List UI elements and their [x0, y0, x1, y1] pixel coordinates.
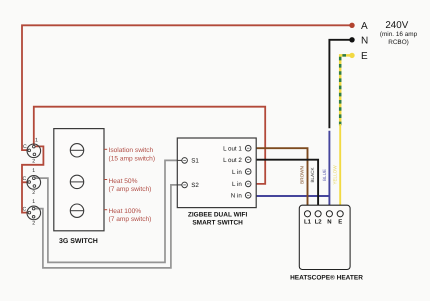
- svg-text:BROWN: BROWN: [299, 166, 304, 184]
- terminal S2: [177, 184, 182, 186]
- node N supply dot: [349, 37, 354, 42]
- svg-text:Heat 50%: Heat 50%: [109, 178, 138, 185]
- svg-text:N: N: [327, 218, 331, 225]
- svg-text:1: 1: [32, 168, 35, 174]
- svg-text:BLUE: BLUE: [322, 169, 327, 181]
- heater box: [299, 205, 350, 269]
- wire: red stub to SW2 C: [22, 181, 29, 183]
- svg-text:(15 amp switch): (15 amp switch): [109, 155, 156, 162]
- svg-text:1: 1: [32, 199, 35, 205]
- wire: switched live red from SW1 terminal 1 to zigbee L in: [34, 107, 265, 184]
- svg-text:N: N: [361, 35, 368, 46]
- svg-text:L in: L in: [232, 181, 242, 188]
- svg-text:N in: N in: [231, 193, 243, 200]
- svg-text:SMART SWITCH: SMART SWITCH: [192, 220, 243, 227]
- 3G switch box: [54, 129, 104, 231]
- wire: black L out 2 to heater L2: [251, 160, 318, 211]
- svg-text:S1: S1: [191, 158, 199, 165]
- rocker 1: [70, 144, 83, 157]
- svg-text:(7 amp switch): (7 amp switch): [109, 186, 152, 193]
- svg-text:L in: L in: [232, 169, 242, 176]
- wire: grey SW3 terminal 1 to zigbee S2: [34, 185, 182, 268]
- svg-text:(min. 16 amp: (min. 16 amp: [380, 31, 418, 38]
- svg-text:3G SWITCH: 3G SWITCH: [59, 238, 98, 245]
- wire: earth yellow-green striped from E: [340, 55, 352, 125]
- wire: live supply red from A to SW1 C: [22, 25, 352, 150]
- svg-text:2: 2: [32, 159, 35, 165]
- heater terminal L1: [304, 211, 310, 217]
- svg-text:BLACK: BLACK: [310, 167, 315, 183]
- svg-text:Isolation switch: Isolation switch: [109, 147, 154, 154]
- svg-text:C: C: [23, 176, 27, 182]
- svg-text:E: E: [361, 51, 368, 62]
- svg-text:C: C: [23, 144, 27, 150]
- heater terminal N: [326, 211, 332, 217]
- svg-text:E: E: [338, 218, 342, 225]
- svg-text:2: 2: [32, 221, 35, 227]
- svg-text:Heat 100%: Heat 100%: [109, 208, 142, 215]
- svg-text:ZIGBEE DUAL WIFI: ZIGBEE DUAL WIFI: [188, 212, 248, 219]
- wire: brown L out 1 to heater L1: [251, 148, 308, 211]
- wire: blue neutral to zigbee N in and heater N: [328, 131, 330, 211]
- svg-text:L out 2: L out 2: [223, 157, 242, 164]
- svg-text:(7 amp switch): (7 amp switch): [109, 216, 152, 223]
- zigbee smart switch box U1: [177, 138, 256, 208]
- svg-text:L2: L2: [315, 218, 323, 225]
- wire: earth solid yellow down to heater E: [339, 124, 341, 211]
- callout dash heat 50%: [104, 179, 107, 181]
- svg-text:YELLOW: YELLOW: [333, 165, 338, 185]
- wire: grey SW2 terminal 1 to zigbee S1: [34, 160, 182, 262]
- node E supply dot: [349, 53, 354, 58]
- svg-text:A: A: [361, 21, 368, 32]
- svg-text:RCBO): RCBO): [388, 39, 409, 46]
- heater terminal E: [337, 211, 343, 217]
- node A supply dot: [349, 23, 354, 28]
- svg-text:1: 1: [35, 137, 38, 143]
- svg-text:L out 1: L out 1: [223, 146, 242, 153]
- switch SW1 isolation switch symbol: [27, 144, 41, 158]
- svg-text:L1: L1: [304, 218, 312, 225]
- terminal S1: [177, 159, 182, 161]
- svg-text:240V: 240V: [385, 20, 408, 31]
- svg-text:2: 2: [32, 190, 35, 196]
- callout dash isolation switch: [104, 148, 107, 150]
- rocker 3: [70, 204, 83, 217]
- svg-text:C: C: [23, 206, 27, 212]
- svg-text:HEATSCOPE® HEATER: HEATSCOPE® HEATER: [290, 275, 363, 282]
- heater terminal L2: [315, 211, 321, 217]
- rocker 2: [70, 175, 83, 188]
- switch SW3 heat 100% symbol: [27, 206, 41, 220]
- svg-text:S2: S2: [191, 182, 199, 189]
- wire: neutral supply black from N down: [329, 40, 352, 129]
- callout dash heat 100%: [104, 209, 107, 211]
- wire: red daisy chain SW1-1 to SW2 C and SW3 C: [22, 146, 43, 212]
- switch SW2 heat 50% symbol: [27, 176, 41, 190]
